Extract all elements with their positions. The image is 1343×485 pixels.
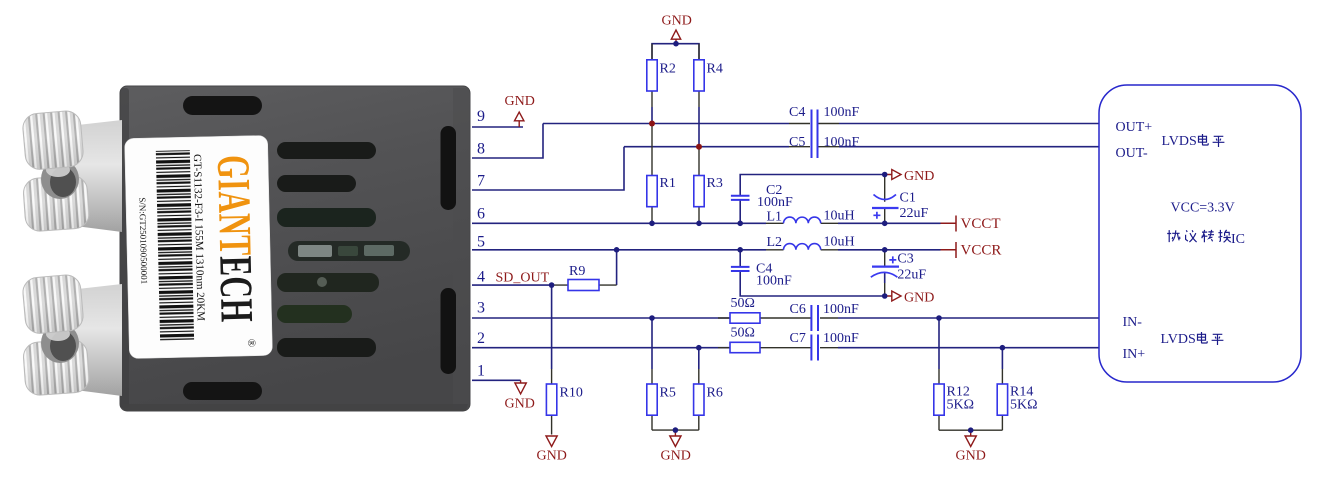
wire OUT- row right xyxy=(839,146,1099,148)
junction R1 row6 xyxy=(649,221,655,227)
svg-text:VCCT: VCCT xyxy=(961,216,1001,232)
wire pin1 stub xyxy=(472,379,521,381)
stub R1 R3 pins xyxy=(652,124,699,224)
svg-text:LVDS: LVDS xyxy=(1161,332,1196,347)
stub R10 pins xyxy=(551,369,553,435)
svg-text:C4: C4 xyxy=(789,105,805,120)
svg-text:5: 5 xyxy=(477,234,485,251)
wire C4b top stub xyxy=(739,250,741,266)
svg-text:GIANTECH: GIANTECH xyxy=(207,155,262,323)
svg-text:R5: R5 xyxy=(660,386,676,401)
ground symbol pin9 xyxy=(515,112,524,127)
svg-text:S/N:GT2501090500001: S/N:GT2501090500001 xyxy=(137,197,149,284)
resistor R4 xyxy=(694,60,704,91)
wire row2 IN+ right xyxy=(838,347,1099,349)
svg-text:22uF: 22uF xyxy=(900,206,929,221)
svg-text:SD_OUT: SD_OUT xyxy=(496,271,550,286)
wire row2 IN+ left xyxy=(472,347,730,349)
svg-text:IN-: IN- xyxy=(1123,315,1143,330)
junction SD_OUT pin4 xyxy=(549,282,555,288)
svg-text:®: ® xyxy=(245,339,257,348)
resistor R14 xyxy=(997,384,1007,415)
wire R5 vertical xyxy=(651,318,653,369)
svg-text:R9: R9 xyxy=(569,264,585,279)
capacitor C3 polarized xyxy=(871,256,899,277)
stub C3 pins xyxy=(884,253,886,297)
svg-text:R1: R1 xyxy=(660,176,676,191)
svg-text:9: 9 xyxy=(477,108,485,125)
junction R14 row2 xyxy=(1000,345,1006,351)
white label xyxy=(125,135,273,358)
svg-text:L2: L2 xyxy=(767,235,783,250)
svg-text:4: 4 xyxy=(477,269,485,286)
svg-text:8: 8 xyxy=(477,141,485,158)
junction R12 R14 gnd xyxy=(968,427,974,433)
wire row5 VCCR xyxy=(472,249,766,251)
wire R14 vertical xyxy=(1001,348,1003,369)
barcode xyxy=(156,150,194,341)
ground symbol R10 xyxy=(546,436,557,447)
svg-text:100nF: 100nF xyxy=(757,195,793,210)
junction top GND tie xyxy=(673,41,679,47)
junction R2 OUT+ row red xyxy=(649,121,655,127)
svg-text:5KΩ: 5KΩ xyxy=(947,398,975,413)
junction R4 OUT- row red xyxy=(696,144,702,150)
junction C4b row5 xyxy=(737,247,743,253)
svg-text:L1: L1 xyxy=(767,210,783,225)
wire row6 after L1 xyxy=(838,222,941,224)
junction C1 row6 xyxy=(882,221,888,227)
power VCCT xyxy=(941,216,957,232)
vent slot 1 xyxy=(277,142,376,159)
wire R4 bottom to row xyxy=(698,107,700,147)
junction C1 gnd rail xyxy=(882,172,888,178)
svg-text:100nF: 100nF xyxy=(823,331,859,346)
ground rail GND right arrow bottom xyxy=(885,291,901,301)
svg-text:100nF: 100nF xyxy=(756,274,792,289)
stub C7 ends xyxy=(790,347,838,349)
module body xyxy=(120,86,470,411)
ground rail GND right arrow top xyxy=(885,170,901,180)
resistor R3 xyxy=(694,176,704,207)
junction R9 row5 xyxy=(614,247,620,253)
resistor R5 xyxy=(647,384,657,415)
wire R9 right vertical to row5 xyxy=(616,250,618,285)
stub C4C5 left xyxy=(789,123,810,125)
capacitor C1 polarized xyxy=(872,195,899,219)
ground symbol R5 R6 xyxy=(670,430,681,446)
junction R6 row2 xyxy=(696,345,702,351)
junction R12 row3 xyxy=(936,315,942,321)
svg-text:OUT-: OUT- xyxy=(1116,146,1148,161)
power VCCR xyxy=(941,242,957,258)
inductor L2 xyxy=(784,244,821,250)
svg-text:GND: GND xyxy=(537,449,567,464)
wire R6 vertical xyxy=(698,348,700,369)
capacitor C4b xyxy=(731,267,750,271)
resistor 50ohm on IN+ xyxy=(730,342,760,352)
svg-text:2: 2 xyxy=(477,330,485,347)
svg-text:C6: C6 xyxy=(790,302,806,317)
svg-text:LVDS: LVDS xyxy=(1162,134,1197,149)
svg-text:1: 1 xyxy=(477,363,485,380)
wire R2 bottom to row xyxy=(651,107,653,124)
resistor R2 xyxy=(647,60,657,91)
wire C1 top stub xyxy=(884,175,886,178)
wire pin9 stub xyxy=(472,126,523,128)
stub 50ohm1 ends xyxy=(718,317,790,319)
label xieyi zhuanhuan IC xyxy=(1167,230,1231,242)
vent slot 2 xyxy=(277,175,356,192)
resistor R6 xyxy=(694,384,704,415)
svg-text:GND: GND xyxy=(662,14,692,29)
stub R5 R6 pins and join xyxy=(652,369,699,430)
resistor R12 xyxy=(934,384,944,415)
resistor R1 xyxy=(647,176,657,207)
svg-text:R3: R3 xyxy=(707,176,723,191)
svg-text:10uH: 10uH xyxy=(824,209,855,224)
wire C3 top stub xyxy=(884,250,886,253)
stub 50ohm2 ends xyxy=(718,347,790,349)
wire gnd rail bottom xyxy=(740,272,885,297)
svg-text:VCCR: VCCR xyxy=(961,243,1002,259)
stub R2 top xyxy=(651,44,653,60)
svg-text:GND: GND xyxy=(505,397,535,412)
svg-text:22uF: 22uF xyxy=(897,268,926,283)
stub R4 top xyxy=(698,44,700,60)
svg-text:IC: IC xyxy=(1231,232,1245,247)
svg-text:7: 7 xyxy=(477,173,485,190)
svg-text:GND: GND xyxy=(956,449,986,464)
svg-text:R6: R6 xyxy=(707,386,723,401)
capacitor C7 series xyxy=(811,335,818,361)
svg-text:OUT+: OUT+ xyxy=(1116,120,1153,135)
right slot lower xyxy=(441,288,457,374)
junction R5 R6 gnd xyxy=(673,427,679,433)
connector bottom xyxy=(22,274,122,396)
ground symbol top center xyxy=(671,30,680,44)
resistor R10 xyxy=(546,384,556,415)
capacitor C4 series xyxy=(812,110,818,159)
svg-text:100nF: 100nF xyxy=(823,302,859,317)
svg-text:C7: C7 xyxy=(790,331,806,346)
vent slot 7 xyxy=(277,338,376,357)
right slot upper xyxy=(441,126,457,210)
svg-text:100nF: 100nF xyxy=(824,105,860,120)
svg-text:5KΩ: 5KΩ xyxy=(1010,398,1038,413)
svg-text:IN+: IN+ xyxy=(1123,347,1146,362)
svg-text:VCC=3.3V: VCC=3.3V xyxy=(1171,201,1235,216)
wire row3 IN- right xyxy=(838,317,1099,319)
svg-text:C1: C1 xyxy=(900,191,916,206)
svg-text:GND: GND xyxy=(904,291,934,306)
wire R12 vertical xyxy=(938,318,940,369)
IC box protocol converter xyxy=(1099,85,1301,382)
junction R5 row3 xyxy=(649,315,655,321)
wire R2 R4 top tie xyxy=(652,44,699,60)
wire pin8 to OUT+ row xyxy=(472,124,543,159)
svg-text:R4: R4 xyxy=(707,62,723,77)
junction R3 row6 xyxy=(696,221,702,227)
ground symbol R12 R14 xyxy=(965,430,976,446)
vent slot 4 wide with pcb xyxy=(288,241,410,261)
wire C3 arc stub xyxy=(884,272,886,283)
wire gnd rail top xyxy=(740,175,885,196)
junction C3 gnd rail xyxy=(882,293,888,299)
capacitor C2 xyxy=(731,196,750,200)
wire pin4 SD_OUT xyxy=(472,284,552,286)
wire C2 bottom stub xyxy=(739,200,741,223)
svg-text:R10: R10 xyxy=(560,386,583,401)
stub C4C5 right xyxy=(789,124,839,147)
connector top xyxy=(22,110,122,232)
svg-text:GND: GND xyxy=(505,94,535,109)
stub R9 ends xyxy=(552,284,617,286)
vent slot 6 xyxy=(277,305,352,323)
inductor L1 xyxy=(784,217,821,223)
wire row5 after L2 xyxy=(838,249,941,251)
svg-text:C5: C5 xyxy=(789,135,805,150)
stub L1 ends xyxy=(766,222,838,224)
svg-text:100nF: 100nF xyxy=(824,135,860,150)
svg-text:3: 3 xyxy=(477,300,485,317)
stub R12 R14 pins and join xyxy=(939,369,1002,430)
ground symbol pin1 xyxy=(515,380,526,394)
capacitor C6 series xyxy=(811,305,818,331)
svg-text:50Ω: 50Ω xyxy=(731,296,755,311)
resistor 50ohm on IN- xyxy=(730,313,760,323)
svg-text:50Ω: 50Ω xyxy=(731,326,755,341)
resistor R9 xyxy=(568,280,599,291)
junction C2 row6 xyxy=(737,221,743,227)
vent slot 3 xyxy=(277,208,376,227)
svg-text:6: 6 xyxy=(477,206,485,223)
bottom slot xyxy=(183,382,262,400)
stub L2 ends xyxy=(766,249,838,251)
wire OUT+ row left xyxy=(543,123,789,125)
wire OUT- row left xyxy=(624,146,789,148)
top slot xyxy=(183,96,262,115)
vent slot 5 xyxy=(277,273,379,292)
stub C1 pins xyxy=(884,177,886,223)
wire row3 IN- left xyxy=(472,317,730,319)
stub R2 R4 bottoms xyxy=(652,91,699,107)
wire pin7 to OUT- row xyxy=(472,147,624,190)
wire R10 vertical xyxy=(551,285,553,369)
svg-text:C3: C3 xyxy=(897,252,913,267)
svg-text:GND: GND xyxy=(904,169,934,184)
wire OUT+ row right xyxy=(839,123,1099,125)
junction C3 row5 xyxy=(882,247,888,253)
stub C6 ends xyxy=(790,317,838,319)
svg-text:R2: R2 xyxy=(660,62,676,77)
svg-text:GND: GND xyxy=(661,449,691,464)
wire row6 VCCT xyxy=(472,222,766,224)
svg-text:10uH: 10uH xyxy=(824,235,855,250)
